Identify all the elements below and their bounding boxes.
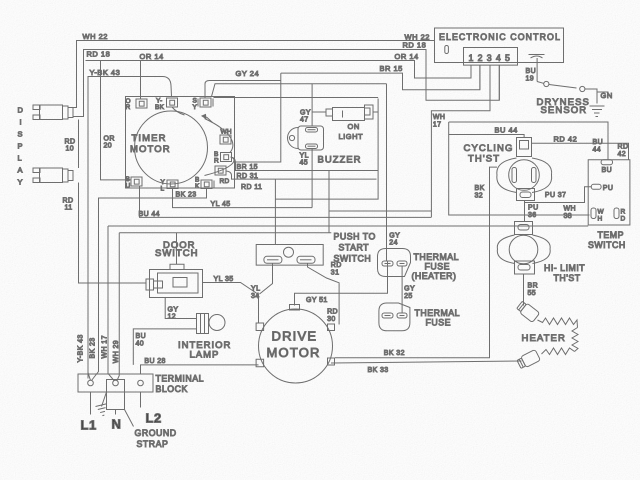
wire RD 31 from timer xyxy=(226,171,377,180)
svg-text:(HEATER): (HEATER) xyxy=(412,271,457,281)
display label xyxy=(18,106,24,187)
wire link to BU44 riser xyxy=(329,210,431,212)
svg-text:A: A xyxy=(18,166,24,175)
wire to temp switch BU xyxy=(449,122,608,160)
wire BR 15 from timer xyxy=(232,158,379,172)
heater top connector xyxy=(516,300,540,322)
svg-text:OR: OR xyxy=(104,136,115,143)
bus wire y225 xyxy=(108,225,588,227)
svg-text:W: W xyxy=(598,209,605,216)
L2 lead xyxy=(141,392,162,426)
svg-text:34: 34 xyxy=(251,293,260,300)
timer terminal Y-L xyxy=(161,179,179,193)
wire BR 15 riser xyxy=(235,73,281,162)
wire YL 35 xyxy=(203,264,273,324)
svg-text:START: START xyxy=(339,243,370,253)
svg-text:MOTOR: MOTOR xyxy=(267,345,321,360)
svg-text:BK: BK xyxy=(475,185,485,192)
wire GY 25 xyxy=(402,266,415,313)
svg-text:Y-BK 43: Y-BK 43 xyxy=(78,334,85,362)
svg-text:N: N xyxy=(112,417,122,432)
display connector P1 xyxy=(33,105,73,120)
timer terminal WH xyxy=(220,129,232,145)
svg-text:LAMP: LAMP xyxy=(190,350,220,361)
svg-text:LIGHT: LIGHT xyxy=(339,132,364,141)
svg-text:Y: Y xyxy=(18,178,24,187)
svg-text:L: L xyxy=(161,186,165,193)
svg-text:R: R xyxy=(621,209,626,216)
svg-text:DRIVE: DRIVE xyxy=(272,329,318,344)
svg-text:BK 33: BK 33 xyxy=(368,367,389,374)
wire WH 22 xyxy=(74,32,435,108)
svg-text:SENSOR: SENSOR xyxy=(541,105,588,116)
svg-text:L1: L1 xyxy=(81,418,97,433)
terminal block xyxy=(78,374,204,395)
svg-text:BU: BU xyxy=(593,139,604,146)
wire PU 36 xyxy=(525,201,539,222)
ground symbol dryness xyxy=(590,106,605,117)
svg-text:PUSH TO: PUSH TO xyxy=(334,232,376,242)
ec capacitor symbol xyxy=(529,55,545,59)
svg-text:17: 17 xyxy=(433,122,442,129)
svg-text:PU: PU xyxy=(528,205,539,212)
wire WH 29 xyxy=(113,233,120,381)
wire RD 18 xyxy=(74,41,500,117)
svg-text:20: 20 xyxy=(104,143,113,150)
svg-text:TERMINAL: TERMINAL xyxy=(156,374,204,384)
wire GY 24 upper xyxy=(205,69,387,98)
svg-text:RD: RD xyxy=(331,262,342,269)
svg-text:THERMAL: THERMAL xyxy=(414,252,460,262)
svg-text:H: H xyxy=(598,216,603,223)
svg-text:TH'ST: TH'ST xyxy=(554,273,581,283)
wire GY 47 xyxy=(300,84,312,126)
cycling thermostat xyxy=(464,138,552,201)
wire GY 51 xyxy=(295,261,388,306)
timer motor box xyxy=(126,97,235,189)
svg-text:WH: WH xyxy=(433,114,445,121)
wire GY 24 lower xyxy=(387,84,401,261)
svg-text:36: 36 xyxy=(528,212,537,219)
wire BR15 drop to bus xyxy=(328,171,330,233)
svg-text:55: 55 xyxy=(528,290,537,297)
wire from S terminal right bracket xyxy=(214,97,379,99)
wire WH 17 left xyxy=(102,226,115,381)
drive motor xyxy=(256,305,334,384)
svg-text:1 2 3 4 5: 1 2 3 4 5 xyxy=(469,53,511,63)
wire BK 23 xyxy=(90,189,207,381)
svg-text:BLOCK: BLOCK xyxy=(156,384,188,394)
svg-text:OR 14: OR 14 xyxy=(140,52,164,61)
svg-text:U: U xyxy=(126,183,131,190)
svg-text:WH 17: WH 17 xyxy=(102,335,109,358)
svg-text:38: 38 xyxy=(564,213,573,220)
svg-text:BK 23: BK 23 xyxy=(176,192,197,199)
timer terminal S-Y xyxy=(193,98,214,112)
svg-text:RD 11: RD 11 xyxy=(241,184,262,191)
svg-text:YL 45: YL 45 xyxy=(211,201,231,208)
svg-text:BR: BR xyxy=(528,283,539,290)
wire GY 12 xyxy=(165,298,196,321)
wire BU 19 xyxy=(526,58,538,83)
thermal fuse heater xyxy=(378,249,460,282)
svg-text:45: 45 xyxy=(300,160,309,167)
svg-text:YL 35: YL 35 xyxy=(214,276,234,283)
svg-text:STRAP: STRAP xyxy=(137,439,169,449)
on light xyxy=(326,105,373,141)
svg-text:PU: PU xyxy=(603,185,614,192)
svg-text:CYCLING: CYCLING xyxy=(464,143,514,154)
svg-text:GY 51: GY 51 xyxy=(306,297,328,304)
svg-text:BK 23: BK 23 xyxy=(90,337,97,358)
ec terminal 2 drop xyxy=(479,65,481,90)
svg-text:I: I xyxy=(20,118,23,127)
svg-text:MOTOR: MOTOR xyxy=(130,144,171,155)
svg-text:GY: GY xyxy=(389,233,400,240)
svg-text:SWITCH: SWITCH xyxy=(155,248,198,259)
wire on light left xyxy=(312,111,326,113)
svg-text:OR 14: OR 14 xyxy=(395,52,419,61)
svg-text:10: 10 xyxy=(66,146,75,153)
wire WH 17 right xyxy=(433,114,590,215)
earth ground at block xyxy=(96,392,109,417)
svg-text:RD 18: RD 18 xyxy=(87,50,111,59)
ec terminal 1 drop xyxy=(470,65,472,78)
timer cam curves xyxy=(172,107,234,176)
svg-text:WH 22: WH 22 xyxy=(83,32,108,41)
svg-text:S: S xyxy=(18,130,24,139)
svg-text:GROUND: GROUND xyxy=(135,428,177,438)
N lead xyxy=(112,410,122,432)
wire RD11 drop to push switch xyxy=(274,179,276,244)
svg-text:L: L xyxy=(18,154,23,163)
svg-text:TH'ST: TH'ST xyxy=(468,154,500,165)
wire YL 45 xyxy=(173,189,313,209)
wire YL 45 buzzer drop xyxy=(300,149,313,208)
svg-text:GY: GY xyxy=(168,307,179,314)
svg-text:RD: RD xyxy=(327,309,338,316)
svg-text:19: 19 xyxy=(526,76,535,83)
svg-text:GY: GY xyxy=(404,286,415,293)
wire WH 38 label xyxy=(564,206,576,221)
svg-text:BU: BU xyxy=(602,167,613,174)
svg-text:D: D xyxy=(18,106,24,115)
bus wire y232 xyxy=(119,232,331,234)
timer terminal Y-BK xyxy=(155,98,178,112)
svg-text:ON: ON xyxy=(348,122,360,131)
svg-text:BR 15: BR 15 xyxy=(380,64,403,73)
svg-text:44: 44 xyxy=(593,147,602,154)
svg-text:30: 30 xyxy=(327,316,336,323)
wire BR 15 upper xyxy=(281,64,480,90)
timer terminal RD xyxy=(215,166,230,185)
svg-text:Y: Y xyxy=(193,104,198,111)
temp switch box xyxy=(588,160,630,250)
svg-text:THERMAL: THERMAL xyxy=(415,308,461,318)
svg-text:47: 47 xyxy=(300,117,309,124)
svg-text:RD 31: RD 31 xyxy=(237,173,259,180)
svg-text:RD 18: RD 18 xyxy=(403,41,427,50)
svg-text:P: P xyxy=(18,142,24,151)
svg-text:D: D xyxy=(621,216,626,223)
wire BK 32 xyxy=(335,167,497,358)
wire OR 14 xyxy=(86,52,472,99)
svg-text:FUSE: FUSE xyxy=(426,318,451,328)
svg-text:BU 44: BU 44 xyxy=(139,211,160,218)
svg-text:PU 37: PU 37 xyxy=(545,192,566,199)
svg-text:R: R xyxy=(126,104,131,111)
label RD 42 vertical xyxy=(618,144,629,159)
svg-text:24: 24 xyxy=(389,240,398,247)
svg-text:RD 42: RD 42 xyxy=(554,135,578,144)
svg-text:TIMER: TIMER xyxy=(132,133,167,144)
wire Y-BK 43 xyxy=(78,68,172,381)
heater element zigzag xyxy=(522,318,579,355)
ec terminal 4 drop xyxy=(498,65,500,100)
wire RD 10 xyxy=(65,120,79,169)
svg-text:BU 44: BU 44 xyxy=(495,126,518,135)
wire OR 20 xyxy=(101,61,132,180)
wire RD 11 xyxy=(63,183,147,284)
label BU 44 vertical xyxy=(593,139,604,154)
timer terminal B-R xyxy=(214,151,232,165)
svg-text:L2: L2 xyxy=(146,411,162,426)
svg-text:TEMP: TEMP xyxy=(598,230,624,240)
svg-text:FUSE: FUSE xyxy=(425,262,450,272)
push to start switch xyxy=(256,232,376,266)
wire BU 40 xyxy=(133,329,196,365)
wire BR 55 xyxy=(524,274,539,306)
svg-text:YL: YL xyxy=(300,153,309,160)
display connector P2 xyxy=(33,168,73,183)
svg-text:K: K xyxy=(195,183,200,190)
dryness sensor xyxy=(537,81,613,116)
L1 lead xyxy=(81,392,97,433)
ec terminal 3 drop xyxy=(431,65,490,217)
wire to door switch tab xyxy=(176,233,178,265)
svg-text:12: 12 xyxy=(168,314,177,321)
svg-text:RD: RD xyxy=(618,144,629,151)
svg-text:42: 42 xyxy=(618,151,627,158)
wire BK 33 xyxy=(331,361,522,374)
wire RD 31 lower xyxy=(308,262,342,325)
svg-text:GN: GN xyxy=(601,91,613,100)
interior lamp xyxy=(178,314,231,361)
svg-text:40: 40 xyxy=(136,341,145,348)
svg-text:BK 32: BK 32 xyxy=(384,350,405,357)
svg-text:WH: WH xyxy=(221,129,232,136)
hi-limit thermostat xyxy=(497,222,585,284)
svg-text:HI- LIMIT: HI- LIMIT xyxy=(544,263,585,273)
wire on light right loop xyxy=(373,111,378,113)
svg-text:WH 29: WH 29 xyxy=(113,340,120,363)
svg-text:WH: WH xyxy=(564,206,576,213)
svg-text:BU: BU xyxy=(526,68,537,75)
svg-text:SWITCH: SWITCH xyxy=(588,240,626,250)
wire BU 44 xyxy=(139,186,432,218)
svg-text:RD: RD xyxy=(65,139,76,146)
svg-text:BUZZER: BUZZER xyxy=(318,155,362,166)
svg-text:11: 11 xyxy=(65,205,73,212)
svg-text:R: R xyxy=(214,158,219,165)
wire BU 28 xyxy=(141,358,259,374)
svg-text:BU: BU xyxy=(136,333,147,340)
buzzer xyxy=(288,126,362,166)
heater bottom connector xyxy=(516,349,540,369)
timer terminal O-R xyxy=(126,98,148,111)
wire BU 44 right xyxy=(449,126,524,138)
svg-text:HEATER: HEATER xyxy=(522,333,566,344)
wire PU 37 xyxy=(525,187,592,203)
svg-text:32: 32 xyxy=(475,193,484,200)
svg-text:25: 25 xyxy=(404,293,413,300)
wire RD 42 xyxy=(532,135,629,160)
svg-text:GY: GY xyxy=(300,110,311,117)
svg-text:31: 31 xyxy=(331,270,340,277)
svg-text:BU 28: BU 28 xyxy=(144,358,165,365)
svg-text:BR 15: BR 15 xyxy=(237,164,258,171)
thermal fuse xyxy=(379,303,460,331)
timer terminal B-K xyxy=(195,177,214,191)
svg-text:Y-BK 43: Y-BK 43 xyxy=(90,68,121,77)
ground strap xyxy=(107,380,177,450)
door switch xyxy=(146,240,203,298)
svg-text:YL: YL xyxy=(251,286,260,293)
svg-text:RD: RD xyxy=(63,198,74,205)
timer terminal B-U xyxy=(126,176,143,190)
svg-text:GY 24: GY 24 xyxy=(236,69,260,78)
svg-text:RD: RD xyxy=(220,178,230,185)
svg-text:BK: BK xyxy=(155,104,165,111)
svg-text:ELECTRONIC CONTROL: ELECTRONIC CONTROL xyxy=(439,32,561,42)
electronic control box xyxy=(435,28,564,65)
